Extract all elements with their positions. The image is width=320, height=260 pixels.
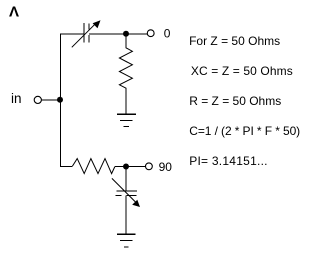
wire C2 to ground <box>125 196 127 235</box>
resistor R2 horizontal <box>72 159 115 174</box>
svg-text:For Z = 50 Ohms: For Z = 50 Ohms <box>189 34 280 48</box>
wire junction to terminal 90 <box>126 166 145 168</box>
ground G2 <box>117 234 136 247</box>
terminal 90 <box>146 163 153 170</box>
wire in terminal to junction <box>42 99 61 101</box>
wire junction 90 down to C2 <box>125 167 127 191</box>
ground G1 <box>117 114 136 126</box>
wire main vertical bus <box>60 34 62 167</box>
resistor R1 vertical <box>119 37 132 115</box>
capacitor C2 variable, top plate <box>117 190 138 192</box>
svg-text:XC = Z = 50 Ohms: XC = Z = 50 Ohms <box>191 64 293 78</box>
terminal IN <box>34 96 41 103</box>
wire top branch mid segment <box>89 33 126 35</box>
svg-text:Λ: Λ <box>9 4 19 21</box>
capacitor C2 variable, bottom plate (dashed) <box>115 195 136 197</box>
svg-text:C=1 / (2 * PI * F * 50): C=1 / (2 * PI * F * 50) <box>189 124 300 138</box>
junction node IN <box>57 97 63 103</box>
svg-text:PI= 3.14151...: PI= 3.14151... <box>189 154 268 168</box>
junction node 0 <box>123 31 129 37</box>
capacitor C1 adjustment arrow <box>72 20 101 47</box>
svg-text:R = Z = 50 Ohms: R = Z = 50 Ohms <box>189 94 281 108</box>
junction node 90 <box>123 164 129 170</box>
capacitor C1 variable, left plate <box>83 23 85 43</box>
wire junction to terminal 0 <box>126 33 147 35</box>
wire top branch left segment <box>60 33 84 35</box>
terminal 0 <box>147 30 154 37</box>
capacitor C2 adjustment arrow <box>112 178 140 207</box>
capacitor C1 variable, right plate (dashed) <box>88 23 90 42</box>
svg-text:0: 0 <box>164 27 171 41</box>
wire R2 to junction 90 <box>115 166 126 168</box>
svg-text:90: 90 <box>159 160 173 174</box>
wire bottom branch left segment <box>60 166 72 168</box>
svg-text:in: in <box>11 91 22 106</box>
